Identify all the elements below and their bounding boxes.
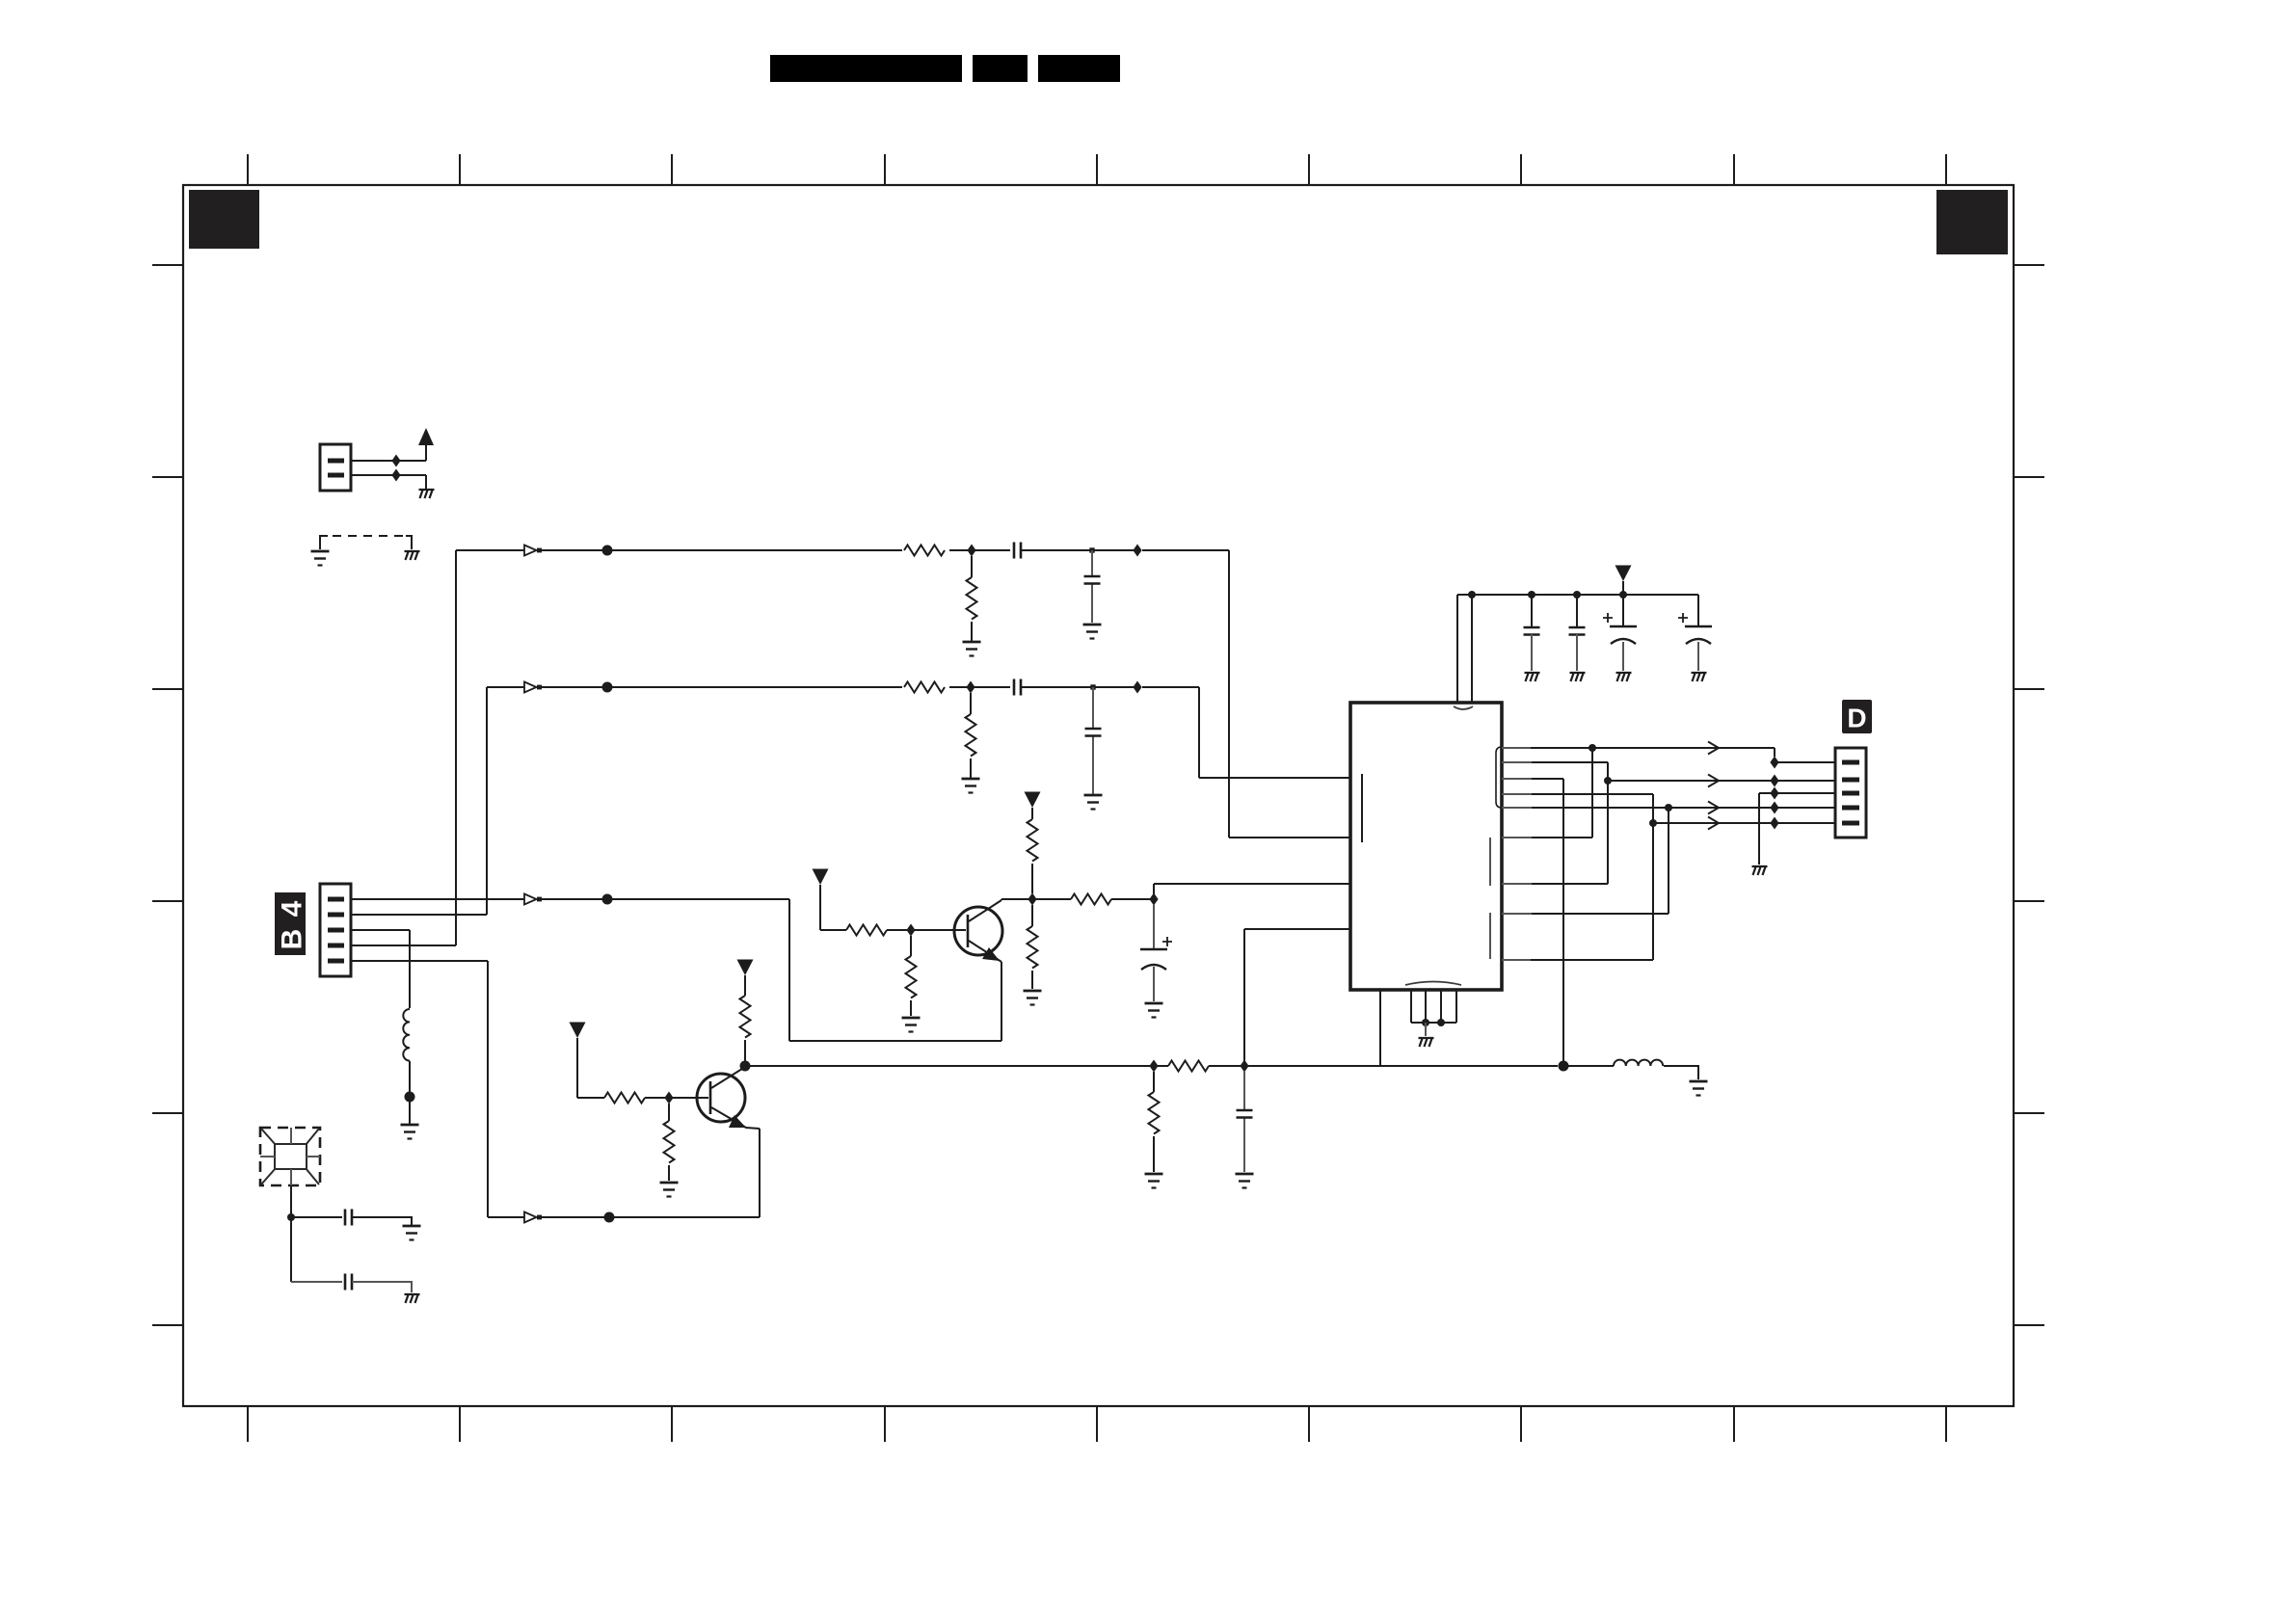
dashed link wire between grounds [320, 536, 412, 549]
ground (flat) under C4 [1084, 795, 1103, 810]
wire diamond to Q1 base [915, 929, 966, 931]
capacitor C3 (series, row 2) [1014, 679, 1021, 696]
ground (flat) under L2 [1690, 1081, 1708, 1096]
resistor R11 (Q2 base to ground) [668, 1104, 670, 1181]
node diamond row 2 b [1133, 681, 1141, 694]
capacitor C7 (electrolytic at Q1 collector node) [1140, 905, 1172, 1001]
wire signal row 3 (B4 pin1 to Q1 emitter) [351, 899, 1001, 1041]
wire L2 to ground [1664, 1066, 1698, 1079]
wire Q2 collector bus to right [745, 1065, 1150, 1067]
wire B4 pin5 riser to row 4 [351, 960, 488, 962]
ground (claw) under C9 [1525, 673, 1540, 681]
junction dot riser 1668 [1604, 777, 1612, 785]
resistor R2 (row 1 to ground) [971, 556, 973, 641]
wire signal row 4 (B4 pin5 riser to Q2 emitter) [488, 961, 760, 1217]
resistor R6 (Q1 base to ground) [910, 936, 912, 1016]
wire U1 pin row y824 to riser 1715 [1502, 793, 1533, 795]
junction dot riser 1715 [1649, 819, 1657, 827]
node diamond D pin5 [1770, 817, 1778, 830]
resistor R3 (series, row 2) [904, 682, 945, 693]
power symbol (down triangle) for Q2 collector [737, 960, 754, 976]
input arrow row 4 [524, 1212, 542, 1223]
wire diamond to Q2 base [673, 1097, 708, 1099]
junction dot above L1 ground [405, 1092, 415, 1103]
ground (claw) under C11 [1616, 673, 1632, 681]
junction dot row 776 [1589, 744, 1596, 752]
svg-text:D: D [1847, 704, 1866, 733]
output arrow row 776 [1708, 742, 1719, 755]
ground (flat) under R13 [1145, 1174, 1163, 1188]
capacitor C8 (bus node to ground) [1243, 1072, 1245, 1172]
ground (claw) under U1 [1419, 1038, 1434, 1047]
capacitor C11 (electrolytic on rail) [1603, 595, 1637, 671]
power symbol (down triangle) for Q1 collector [1025, 792, 1041, 809]
wire connector D pin3 to ground [1759, 793, 1835, 865]
connector CN1 (2-pin) [320, 444, 351, 491]
wire B4 pin4 riser to row 1 [351, 550, 456, 945]
node square row 1 [1089, 547, 1094, 552]
capacitor C4 (row 2 shunt) [1092, 687, 1094, 794]
wire U1 pin row y917 [1502, 883, 1533, 885]
ground (flat) under R6 [902, 1018, 921, 1032]
wire Q2 emitter riser to row 4 [759, 1129, 761, 1217]
capacitor C1 (series, row 1) [1014, 543, 1021, 559]
node diamond Q1 collector a [1028, 893, 1036, 906]
capacitor C9 (rail decoupling) [1531, 595, 1533, 626]
junction dot rail d [1619, 591, 1627, 599]
capacitor C2 (row 1 shunt) [1091, 550, 1093, 623]
resistor R4 (row 2 to ground) [970, 693, 972, 778]
wire CN1 pin1 to +supply [351, 445, 426, 461]
junction dot row 838 [1665, 804, 1672, 811]
junction dot U1 bottom b [1437, 1019, 1445, 1026]
ground (flat) under C8 [1236, 1174, 1254, 1188]
power symbol (down triangle) for Q2 base network [570, 1023, 586, 1039]
ground (claw) for D pin3 [1752, 866, 1768, 875]
connector B4 (5-pin) [320, 884, 351, 976]
wire Q2 base feed [577, 1038, 665, 1098]
input arrow row 3 [524, 894, 542, 905]
wire U1 bottom-left to inductor node [1380, 990, 1558, 1066]
transistor Q1 [954, 900, 1002, 1041]
wire riser 1731 to U1 pin row y948 [1502, 913, 1533, 915]
node diamond on pin2 wire [391, 469, 400, 482]
ground (claw) right of dashed link [405, 551, 420, 560]
wire U1 pin row y838 to connector D pin4 [1502, 807, 1533, 809]
input arrow row 1 [524, 545, 542, 556]
junction dot X1 node [287, 1213, 295, 1221]
ground (claw) for C6 [405, 1294, 420, 1303]
power symbol +V (up triangle) [418, 428, 434, 445]
wire signal row 1 (from B4 pin4 riser to IC pin at y869) [456, 550, 1350, 838]
power symbol (down triangle) on rail [1615, 566, 1632, 582]
wire bus node to IC left pin (y964) [1244, 929, 1350, 1066]
ground (claw) under CN1 pin2 [419, 490, 435, 498]
wire B4 pin2 riser to row 2 [351, 914, 487, 916]
junction dot Q2 collector [740, 1061, 751, 1072]
inductor L2 [1614, 1060, 1663, 1066]
node diamond on pin1 wire [391, 455, 400, 467]
junction dot rail c [1573, 591, 1581, 599]
node diamond D pin1 [1770, 757, 1778, 769]
ground (flat) under C2 [1083, 625, 1102, 639]
capacitor C6 (X1 node lower to ground) [291, 1281, 342, 1283]
wire U1 pin row y791 to riser [1502, 761, 1533, 763]
connector D (5-pin) [1835, 748, 1866, 838]
ground (flat) under C7 [1145, 1003, 1163, 1018]
junction dot row 4 [604, 1212, 615, 1223]
wire U1 pin row y808 to inductor node riser [1502, 778, 1533, 780]
inductor L1 (B4 pin3 to ground) [403, 1009, 410, 1061]
resistor R5 (Q1 base series) [846, 925, 887, 936]
resistor R9 (Q1 collector series) [1071, 894, 1111, 905]
node diamond row 1 b [1133, 545, 1141, 557]
wire feed connector D pin2 [1608, 780, 1835, 782]
wire X1 bottom node [290, 1185, 292, 1282]
wire link pins 776-869 [1502, 837, 1533, 838]
wire CN1 pin2 to ground [351, 475, 426, 489]
crystal/shield X1 [260, 1128, 320, 1185]
label D [1842, 700, 1872, 733]
junction dot row 1 [602, 545, 613, 556]
ground (flat) under L1 [401, 1125, 419, 1139]
ground (flat) under R4 [962, 779, 980, 793]
node square row 2 [1090, 684, 1095, 689]
output arrow row 838 [1708, 802, 1719, 814]
wire feed connector D pin5 [1653, 822, 1835, 824]
node diamond D pin4 [1770, 802, 1778, 814]
resistor R12 (Q2 collector pull-up) [744, 975, 746, 1066]
ground (flat) under R11 [660, 1183, 679, 1197]
ground (flat) under R2 [963, 642, 981, 656]
wire U1 bottom to ground [1425, 1023, 1427, 1036]
ground (flat) under R8 [1024, 991, 1042, 1005]
wire diamond to D pin1 [1775, 761, 1835, 763]
power symbol (down triangle) for Q1 base network [813, 869, 829, 886]
wire signal row 2 (from B4 pin2 riser to IC pin at y807) [487, 687, 1350, 915]
junction dot U1 bottom a [1422, 1019, 1429, 1026]
node diamond row 1 a [967, 545, 975, 557]
svg-text:B 4: B 4 [277, 899, 308, 950]
ground (claw) under C10 [1570, 673, 1586, 681]
ground (flat) left of dashed link [311, 551, 330, 566]
capacitor C10 (rail decoupling) [1576, 595, 1578, 626]
node diamond D pin3 [1770, 787, 1778, 800]
wire Q1 base feed [820, 885, 907, 930]
wire U1 VCC trace (wide) to rail [1457, 595, 1472, 703]
wire bus continues to inductor node [1248, 1065, 1380, 1067]
node diamond Q1 collector b [1149, 893, 1158, 906]
ground (flat) for C5 [403, 1226, 421, 1240]
ground (claw) under C12 [1692, 673, 1707, 681]
node diamond collector bus a [1149, 1060, 1158, 1073]
wire U1 pin row y996 [1502, 959, 1531, 961]
resistor R10 (Q2 base series) [604, 1093, 645, 1104]
output arrow row 810 [1708, 775, 1719, 787]
resistor R7 (Q1 collector pull-up) [1031, 808, 1033, 893]
capacitor C5 (X1 node to ground) [291, 1216, 342, 1218]
label B4 [275, 892, 308, 955]
wire U1 right pin row y776 to connector D pin1 [1502, 747, 1531, 749]
junction dot rail a [1468, 591, 1476, 599]
node diamond Q2 base [664, 1092, 673, 1104]
wire node to inductor [1563, 1065, 1614, 1067]
output arrow row 854 [1708, 817, 1719, 830]
capacitor C12 (electrolytic at rail end) [1678, 595, 1712, 671]
junction dot inductor node [1559, 1061, 1569, 1072]
resistor R1 (series, row 1) [904, 545, 945, 556]
resistor R13 (bus node to ground) [1153, 1072, 1155, 1172]
resistor R14 (bus series) [1158, 1065, 1241, 1067]
op-amp/IC U1 [1350, 703, 1502, 990]
wire to IC left pin (y917) [1154, 884, 1350, 899]
node diamond Q1 base [906, 924, 915, 937]
node diamond row 2 a [966, 681, 974, 694]
resistor R8 (Q1 collector to ground) [1031, 905, 1033, 989]
junction dot rail b [1528, 591, 1535, 599]
wire B4 pin3 to inductor [351, 930, 410, 1008]
node diamond collector bus b [1240, 1060, 1248, 1073]
wire Q1 collector node [1001, 899, 1150, 900]
power rail above U1 [1457, 594, 1698, 596]
input arrow row 2 [524, 682, 542, 693]
junction dot row 2 [602, 682, 613, 693]
junction dot row 3 [602, 894, 613, 905]
node diamond D pin2 [1770, 775, 1778, 787]
transistor Q2 [697, 1067, 760, 1129]
U1 bottom pin block [1411, 990, 1456, 1023]
